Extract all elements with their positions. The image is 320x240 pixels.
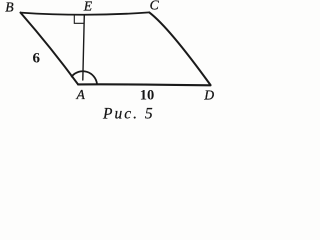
right-angle mark at E: [74, 15, 83, 23]
svg-text:E: E: [83, 0, 93, 14]
svg-text:D: D: [203, 88, 214, 103]
svg-text:Рис. 5: Рис. 5: [102, 106, 155, 123]
svg-text:A: A: [76, 87, 86, 102]
angle arc at A: [72, 71, 97, 84]
svg-text:B: B: [5, 0, 14, 14]
height AE: [83, 15, 85, 80]
svg-text:10: 10: [140, 88, 155, 104]
side CD (right): [149, 12, 210, 85]
side BC (top): [21, 12, 150, 14]
svg-text:C: C: [150, 0, 160, 13]
side AD (bottom, labelled 10): [78, 83, 211, 86]
side BA (left, labelled 6): [21, 13, 79, 85]
svg-text:6: 6: [33, 51, 41, 67]
